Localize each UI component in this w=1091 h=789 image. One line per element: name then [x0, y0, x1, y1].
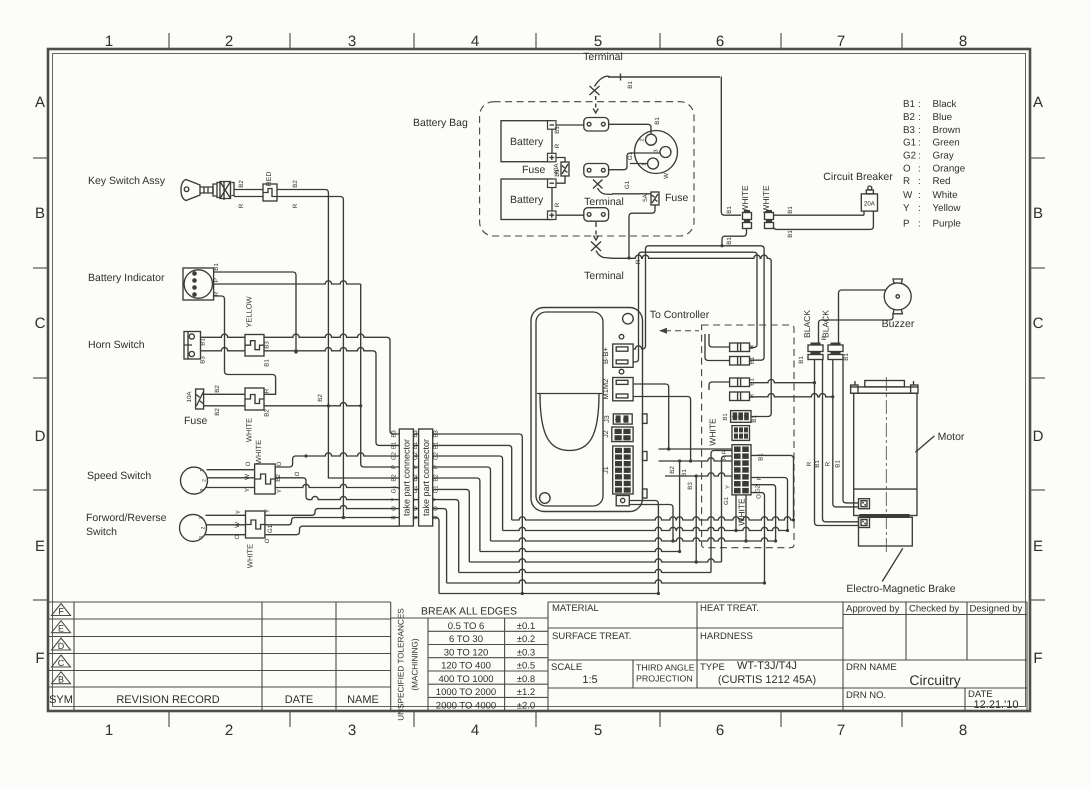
svg-text:8: 8: [742, 448, 747, 451]
svg-text:Fuse: Fuse: [522, 164, 546, 176]
pin 2: [640, 138, 646, 141]
svg-text:J2: J2: [603, 430, 610, 438]
label O: [264, 538, 271, 543]
svg-text:take part connector: take part connector: [402, 439, 412, 516]
connector M1M2: [613, 378, 633, 401]
svg-text:White: White: [933, 190, 959, 201]
svg-text:B1: B1: [751, 415, 758, 423]
brake leader line: [882, 548, 903, 581]
wire B3 drop: [695, 476, 698, 564]
label Switch: [86, 526, 117, 538]
svg-text:B3: B3: [903, 125, 916, 136]
svg-text:Fuse: Fuse: [184, 415, 208, 427]
wire R bottom terminal to block A: [612, 255, 772, 416]
wire P drop: [433, 467, 491, 541]
connector J3: [613, 414, 632, 424]
label WHITE: [246, 544, 255, 568]
wire G1 drop: [433, 489, 470, 562]
svg-text:O: O: [294, 471, 301, 476]
svg-text:8: 8: [959, 722, 967, 739]
svg-text:D: D: [58, 641, 65, 651]
svg-text:7: 7: [837, 33, 845, 50]
motor terminal T1: [859, 499, 870, 509]
label R: [721, 455, 728, 460]
label Motor: [938, 431, 965, 443]
wire run 593: [439, 592, 658, 595]
svg-text:C: C: [58, 658, 65, 668]
wire run 551: [480, 548, 680, 551]
svg-text:Key Switch Assy: Key Switch Assy: [88, 175, 166, 187]
terminal disconnect mid: [593, 180, 613, 195]
forward/reverse switch S4: [180, 514, 207, 541]
label Y: [276, 489, 283, 493]
svg-text::: :: [918, 219, 921, 230]
wire bat2 pos to terminal: [556, 214, 584, 216]
svg-text:30 TO 120: 30 TO 120: [444, 647, 489, 658]
label B2: [275, 474, 282, 482]
connector RED: [263, 184, 277, 201]
svg-text:A: A: [35, 94, 45, 111]
svg-text:1:5: 1:5: [582, 674, 597, 686]
label WHITE: [254, 440, 263, 464]
svg-text:3: 3: [734, 461, 739, 464]
wire to motor a: [843, 360, 859, 503]
connector block A: [731, 411, 751, 423]
svg-text:3: 3: [348, 722, 356, 739]
svg-text:B: B: [58, 675, 64, 685]
svg-text:take part connector: take part connector: [421, 439, 431, 516]
label R: [821, 335, 828, 340]
svg-text:RED: RED: [266, 172, 273, 187]
label B2: [238, 180, 245, 188]
label B1: [627, 81, 634, 89]
wire tab down 1: [629, 501, 660, 596]
svg-text:J1: J1: [603, 466, 610, 474]
wire Y drop: [433, 500, 459, 573]
wire pin1 stub: [630, 163, 648, 165]
svg-text:1: 1: [731, 415, 736, 418]
svg-text:B1: B1: [391, 441, 398, 449]
label M1M2: [601, 379, 610, 400]
label B1: [758, 453, 765, 461]
terminal disconnect bottom: [591, 222, 612, 258]
svg-text:4: 4: [471, 33, 479, 50]
round connector P1: [635, 131, 678, 174]
svg-text:WT-T3J/T4J: WT-T3J/T4J: [737, 660, 797, 672]
wire speed O: [207, 469, 255, 471]
key switch assy S1 key: [181, 180, 213, 201]
svg-text:NAME: NAME: [347, 694, 379, 706]
svg-text:Y: Y: [235, 510, 242, 514]
svg-text:4: 4: [624, 436, 629, 439]
svg-text:R: R: [554, 202, 561, 207]
label R: [806, 461, 813, 466]
label R: [264, 388, 271, 393]
wire speed Y to take part: [275, 484, 399, 489]
svg-text:R: R: [238, 203, 245, 208]
svg-text:2: 2: [201, 526, 207, 529]
pin 3: [199, 536, 205, 539]
electro-magnetic brake: [859, 517, 913, 546]
svg-text:B: B: [35, 205, 45, 222]
wire key R: [234, 196, 263, 198]
svg-text:WHITE: WHITE: [761, 185, 771, 213]
wire blockC R2: [751, 478, 789, 533]
inline connector C3: [730, 378, 750, 387]
svg-text:B1: B1: [722, 413, 729, 421]
svg-text::: :: [918, 112, 921, 123]
svg-text:G2: G2: [754, 484, 761, 493]
wire fuse B2 bottom: [204, 405, 245, 407]
svg-text:3: 3: [654, 149, 660, 152]
svg-text:R: R: [825, 461, 832, 466]
svg-text:7: 7: [837, 722, 845, 739]
svg-text:WHITE: WHITE: [708, 418, 718, 446]
svg-text:2: 2: [734, 455, 739, 458]
take part connector J5: [419, 429, 433, 526]
svg-text:B1: B1: [726, 206, 733, 214]
svg-text:Battery Bag: Battery Bag: [413, 117, 468, 129]
label B1: [264, 359, 271, 367]
wire buzzer 2: [839, 290, 887, 345]
label 10A: [186, 391, 193, 403]
svg-text:Buzzer: Buzzer: [882, 318, 915, 330]
label P: [756, 476, 763, 480]
svg-text:B1: B1: [627, 81, 634, 89]
svg-text:Fuse: Fuse: [665, 192, 689, 204]
label B1: [681, 469, 688, 477]
svg-text:±0.3: ±0.3: [517, 647, 535, 658]
svg-text:B2: B2: [669, 466, 676, 474]
svg-text:1: 1: [200, 469, 206, 472]
svg-text:±0.2: ±0.2: [517, 634, 535, 645]
svg-text:Designed by: Designed by: [970, 604, 1023, 615]
svg-text:2000 TO 4000: 2000 TO 4000: [436, 700, 496, 711]
label W: [663, 173, 670, 179]
wire speed O to take part: [275, 453, 399, 467]
label Fuse 5A: [665, 192, 689, 204]
svg-text:BLACK: BLACK: [802, 310, 812, 338]
label WHITE: [740, 185, 750, 213]
svg-text:O: O: [903, 163, 911, 174]
wire horn B3 to take part: [264, 334, 399, 434]
svg-text:B1: B1: [798, 356, 805, 364]
svg-text:C: C: [35, 315, 46, 332]
wire key R down: [277, 197, 345, 520]
svg-text:B2: B2: [264, 409, 271, 417]
svg-text:M1M2: M1M2: [601, 379, 610, 400]
svg-text:MATERIAL: MATERIAL: [552, 603, 599, 614]
svg-text:B1: B1: [726, 237, 733, 245]
wire B1 hook to right: [595, 74, 721, 87]
svg-text:YELLOW: YELLOW: [245, 295, 254, 327]
pin 3: [200, 488, 206, 491]
label B-B+: [601, 347, 610, 365]
svg-text::: :: [918, 125, 921, 136]
svg-text:R: R: [554, 143, 561, 148]
svg-text:P: P: [903, 219, 910, 230]
svg-text:5A: 5A: [642, 193, 649, 201]
svg-text:Black: Black: [933, 99, 957, 110]
wire B2 drop: [433, 478, 480, 552]
svg-text:2: 2: [624, 430, 629, 433]
svg-text:G1: G1: [903, 138, 916, 149]
svg-text:3: 3: [615, 462, 620, 465]
svg-text:SURFACE TREAT.: SURFACE TREAT.: [552, 631, 631, 642]
wire H449: [659, 447, 733, 450]
svg-text:WHITE: WHITE: [246, 544, 255, 568]
svg-text:(MACHINING): (MACHINING): [411, 638, 420, 691]
svg-text:B1: B1: [681, 469, 688, 477]
label B1: [554, 126, 561, 134]
speed switch S3: [181, 467, 208, 494]
svg-text:B3: B3: [687, 482, 694, 490]
svg-text:6: 6: [615, 482, 620, 485]
svg-text:B1: B1: [787, 206, 794, 214]
label B2: [292, 180, 299, 188]
svg-text::: :: [918, 99, 921, 110]
wire blockC R1: [751, 455, 795, 521]
svg-text:5: 5: [594, 33, 602, 50]
label Y: [244, 488, 251, 492]
wire to brake b: [815, 360, 859, 526]
fuse F2 40A: [561, 162, 569, 176]
label B1: [726, 206, 733, 214]
svg-text:B: B: [1033, 205, 1043, 222]
svg-text:B3: B3: [391, 430, 398, 438]
wire R drop: [433, 518, 439, 594]
label Forward/Reverse: [86, 512, 167, 524]
svg-text:Motor: Motor: [938, 431, 965, 443]
label R: [721, 449, 728, 454]
wire horn B1: [201, 334, 246, 337]
pin 1: [199, 516, 205, 519]
wire W2 to CB: [774, 214, 865, 216]
svg-text:B1: B1: [213, 263, 220, 271]
wire C3 to vertical: [750, 380, 817, 385]
wire B+ to C2: [633, 244, 764, 360]
connector J2: [612, 427, 633, 442]
svg-text:B3: B3: [264, 341, 271, 349]
terminal TB: [584, 164, 609, 178]
wire battery indicator P: [214, 281, 361, 284]
svg-text:WHITE: WHITE: [740, 185, 750, 213]
connector B-B+: [613, 344, 633, 367]
label B1: [843, 353, 850, 361]
wire B1 down to white pair: [721, 77, 741, 216]
svg-text:B2: B2: [391, 474, 398, 482]
connector block B: [732, 426, 750, 441]
svg-text:B1: B1: [835, 460, 842, 468]
svg-text:3: 3: [199, 536, 205, 539]
circuit breaker CB1 20A: [861, 186, 877, 211]
label 5A: [642, 193, 649, 201]
label R: [554, 202, 561, 207]
wire run 583: [447, 580, 765, 583]
label R: [213, 291, 220, 296]
svg-text:10: 10: [742, 460, 747, 466]
svg-text:G2: G2: [903, 151, 916, 162]
svg-text:2: 2: [615, 455, 620, 458]
svg-text:4: 4: [471, 722, 479, 739]
svg-text:±1.2: ±1.2: [517, 687, 535, 698]
wire blockC drop2: [744, 495, 747, 543]
label YELLOW: [245, 295, 254, 327]
svg-text:2: 2: [202, 479, 208, 482]
label Y: [725, 485, 732, 489]
svg-text:R: R: [749, 344, 756, 349]
label Fuse: [184, 415, 208, 427]
svg-text:Y: Y: [903, 203, 910, 214]
svg-text:E: E: [58, 624, 64, 634]
label B1: [200, 338, 207, 346]
wire speed Y: [206, 487, 255, 489]
svg-text:B1: B1: [749, 378, 756, 386]
svg-text:Blue: Blue: [933, 112, 953, 123]
svg-text::: :: [918, 151, 921, 162]
svg-text:Y: Y: [391, 498, 398, 502]
svg-text:±0.1: ±0.1: [517, 621, 535, 632]
wire O drop: [433, 509, 447, 583]
svg-text:B3: B3: [200, 356, 207, 364]
connector YELLOW: [245, 335, 264, 357]
brake terminal T2: [859, 518, 870, 528]
svg-text:P: P: [391, 465, 398, 469]
svg-text:C: C: [1033, 315, 1044, 332]
label BLACK: [802, 310, 812, 338]
svg-text:THIRD ANGLE: THIRD ANGLE: [636, 663, 695, 673]
horn switch S2: [184, 332, 201, 360]
svg-text:O: O: [276, 461, 283, 466]
svg-text:5: 5: [615, 475, 620, 478]
svg-text:±2.0: ±2.0: [517, 700, 535, 711]
connector WHITE fr: [246, 511, 265, 538]
wire fr W: [207, 524, 246, 526]
svg-text:13: 13: [742, 481, 747, 487]
controller U1 CURTIS 1212: [531, 308, 647, 512]
label B1: [751, 415, 758, 423]
terminal TC: [584, 208, 609, 222]
terminal disconnect top: [590, 86, 600, 113]
label B1: [835, 460, 842, 468]
label B2: [214, 408, 221, 416]
wire color legend: [903, 99, 966, 230]
svg-text::: :: [918, 163, 921, 174]
label R: [635, 259, 642, 264]
svg-text:R: R: [391, 515, 398, 520]
svg-text:Terminal: Terminal: [584, 270, 624, 282]
wire CB left leg: [863, 211, 865, 215]
wire tab down 2: [629, 505, 674, 543]
svg-text:E: E: [1033, 538, 1043, 555]
wire fuse B2 top: [204, 393, 245, 395]
label G2: [754, 484, 761, 493]
wire fr O: [205, 534, 246, 536]
svg-text:1: 1: [199, 516, 205, 519]
svg-text:400 TO 1000: 400 TO 1000: [438, 674, 493, 685]
wire P down to take part: [361, 284, 400, 467]
take part connector pin labels: [391, 430, 440, 520]
label Y: [264, 509, 271, 513]
svg-text:120 TO 400: 120 TO 400: [441, 661, 491, 672]
svg-text:Gray: Gray: [933, 151, 954, 162]
svg-text:G1: G1: [391, 485, 398, 494]
svg-text:Brown: Brown: [933, 125, 961, 136]
svg-text::: :: [918, 176, 921, 187]
svg-text:R: R: [749, 393, 756, 398]
connector WHITE speed: [255, 464, 276, 494]
label G1: [627, 151, 634, 160]
svg-text:B2: B2: [214, 385, 221, 393]
svg-text:E: E: [35, 538, 45, 555]
connector pair K2: [828, 343, 843, 360]
label O: [234, 534, 241, 539]
svg-text:B1: B1: [554, 126, 561, 134]
svg-text:O: O: [391, 506, 398, 511]
svg-text:8: 8: [624, 449, 629, 452]
screw hole: [619, 369, 624, 374]
svg-text:1: 1: [734, 448, 739, 451]
label G1: [723, 496, 730, 505]
svg-text:1: 1: [615, 449, 620, 452]
svg-text:2: 2: [737, 415, 742, 418]
svg-text:1: 1: [105, 33, 113, 50]
label B3: [264, 341, 271, 349]
terminal TA: [584, 118, 609, 132]
svg-text:DRN NO.: DRN NO.: [846, 690, 886, 701]
svg-text:B2: B2: [214, 408, 221, 416]
svg-text:10: 10: [624, 461, 629, 467]
wire TB to pin3: [609, 153, 660, 170]
svg-text:9: 9: [742, 455, 747, 458]
label R: [238, 203, 245, 208]
svg-text:11: 11: [742, 467, 747, 472]
svg-text:W: W: [244, 474, 251, 480]
svg-text:B2: B2: [238, 180, 245, 188]
svg-text:PROJECTION: PROJECTION: [636, 674, 693, 684]
svg-text:10A: 10A: [186, 391, 193, 403]
wire M1 down: [633, 384, 670, 451]
label B1: [722, 413, 729, 421]
svg-text:REVISION RECORD: REVISION RECORD: [116, 694, 219, 706]
wire fuse 5A down: [627, 205, 655, 260]
connector pair W1: [743, 210, 752, 229]
svg-text::: :: [918, 203, 921, 214]
svg-text:Battery Indicator: Battery Indicator: [88, 272, 165, 284]
inline connector C1: [730, 343, 750, 352]
svg-text:6: 6: [716, 33, 724, 50]
svg-text:F: F: [1033, 650, 1042, 667]
svg-text:BREAK ALL EDGES: BREAK ALL EDGES: [421, 606, 517, 618]
pin 1: [200, 469, 206, 472]
screw hole: [619, 334, 624, 339]
label To Controller: [650, 309, 710, 321]
svg-text:Circuit Breaker: Circuit Breaker: [823, 171, 893, 183]
svg-text:2: 2: [225, 33, 233, 50]
svg-text:R: R: [806, 461, 813, 466]
svg-text:Checked by: Checked by: [909, 604, 959, 615]
wire run 562: [469, 559, 721, 564]
wire blockC drop1: [734, 495, 737, 532]
wire fr Y to take part: [265, 505, 399, 515]
svg-text:SCALE: SCALE: [551, 662, 582, 673]
wire fr W to take part: [265, 516, 399, 525]
label Electro-Magnetic Brake: [846, 583, 955, 595]
label B3: [200, 356, 207, 364]
svg-text:SYM: SYM: [49, 694, 73, 706]
label O: [276, 461, 283, 466]
svg-text:12: 12: [742, 474, 747, 480]
